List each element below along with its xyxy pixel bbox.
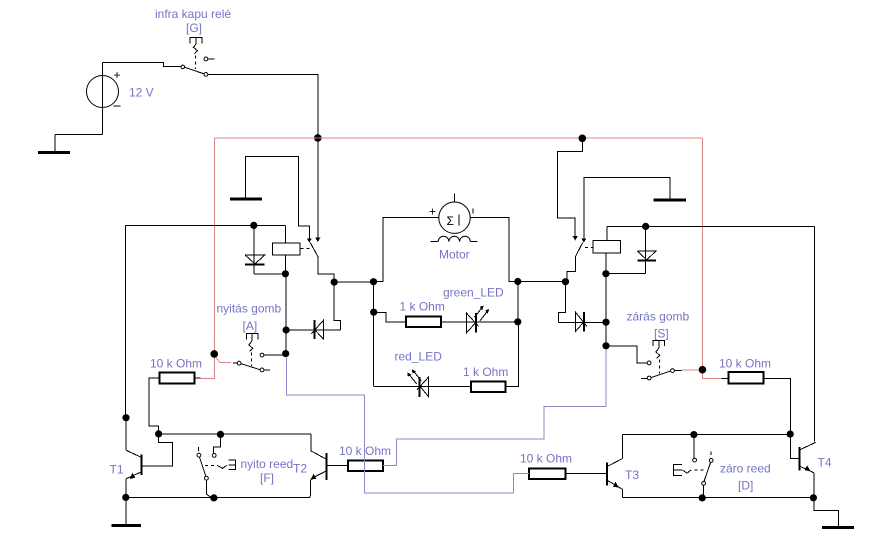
relay switch right fixed contact arrow: [315, 138, 320, 242]
wire green node down to red row: [506, 322, 519, 387]
wire emitter row left: [126, 497, 310, 499]
relay switch arm (right): [567, 243, 583, 282]
ground (right relay): [584, 177, 686, 238]
resistor 10 k Ohm (T2 base): [348, 460, 383, 470]
red_LED: [407, 369, 428, 397]
svg-text:nyitás gomb: nyitás gomb: [217, 302, 282, 316]
relay G switch: [181, 57, 214, 76]
relay switch left fixed contact arrow: [307, 238, 312, 242]
wire arm node down to contact diode: [334, 282, 340, 330]
node right arm out: [562, 278, 569, 285]
wire right 10k right pin down: [764, 379, 791, 434]
wire red top rail: [214, 137, 702, 139]
transistor T1: [126, 418, 141, 498]
transistor T2: [310, 434, 326, 498]
wire T2 base to resistor: [326, 465, 348, 467]
push button nyitás gomb [A]: [233, 333, 286, 371]
svg-text:red_LED: red_LED: [395, 350, 443, 364]
node left button junction: [282, 350, 289, 357]
svg-text:infra kapu relé: infra kapu relé: [155, 7, 231, 21]
node green row tap: [370, 309, 377, 316]
resistor 10 k Ohm (T3 base): [529, 469, 565, 479]
svg-text:1 k Ohm: 1 k Ohm: [463, 365, 508, 379]
svg-text:Σ: Σ: [447, 214, 454, 228]
wire tap to 1k green resistor: [374, 313, 406, 322]
node motor right: [514, 278, 521, 285]
wire emitter row right: [622, 497, 813, 499]
relay coil (left): [273, 225, 300, 273]
transistor T4: [799, 442, 815, 497]
relay G coil: [190, 37, 202, 69]
contact diode (left, points left): [286, 320, 340, 339]
node T1 collector: [122, 414, 129, 421]
svg-text:12 V: 12 V: [129, 86, 154, 100]
resistor 10 k Ohm (left): [160, 372, 195, 383]
resistor 10 k Ohm (right): [728, 372, 763, 383]
wire relay G to node x318: [208, 74, 318, 137]
node right diode row: [602, 319, 609, 326]
wire right outer loop down to T4: [814, 227, 816, 442]
svg-text:Motor: Motor: [439, 248, 470, 262]
node right button junction: [602, 342, 609, 349]
wire blue B (zaras node to T2 resistor): [383, 349, 606, 465]
node top left on red: [314, 134, 322, 142]
node left coil bottom: [282, 270, 289, 277]
wire left 10k right pin: [195, 377, 201, 379]
right relay left fixed contact arrow: [573, 236, 578, 240]
motor M1: [429, 194, 478, 242]
wire red left drop: [213, 138, 215, 354]
svg-text:[G]: [G]: [186, 21, 202, 35]
node T1 emitter: [122, 494, 129, 501]
wire row motor-left to arm node: [334, 281, 373, 283]
resistor R green 1 k Ohm: [406, 317, 441, 328]
T1 base step: [142, 434, 173, 466]
wire row motor-right to right arm node: [518, 281, 566, 283]
node T4 emitter: [810, 494, 817, 501]
mech link dashes (right relay): [585, 246, 593, 248]
T4 base step: [791, 434, 800, 458]
wire left 10k left pin down: [149, 378, 160, 434]
svg-text:[D]: [D]: [738, 479, 753, 493]
node motor left: [370, 278, 377, 285]
svg-text:T4: T4: [818, 456, 832, 470]
svg-text:10 k Ohm: 10 k Ohm: [339, 444, 391, 458]
node top right on red: [579, 135, 587, 143]
reed switch záro reed [D]: [674, 435, 713, 498]
right relay right fixed contact arrow: [581, 238, 586, 242]
ground (bottom right): [814, 498, 854, 528]
node right coil bottom: [602, 270, 609, 277]
node green row right: [514, 318, 521, 325]
node reed D bottom: [699, 494, 706, 501]
wire right supply row y226: [607, 226, 815, 228]
wire motor-right node down: [517, 282, 519, 322]
node reed F bottom: [210, 494, 217, 501]
reed switch nyito reed [F]: [197, 434, 235, 497]
node left diode row: [283, 326, 290, 333]
svg-text:zárás gomb: zárás gomb: [627, 310, 690, 324]
svg-text:T1: T1: [110, 463, 124, 477]
wire left supply row y225: [126, 224, 286, 226]
svg-text:1 k Ohm: 1 k Ohm: [400, 300, 445, 314]
wire T3 base to resistor: [566, 473, 607, 475]
wire motor right: [470, 218, 518, 282]
wire red to left 10k resistor: [201, 354, 215, 379]
svg-text:+: +: [114, 68, 121, 82]
relay switch arm (left): [310, 243, 334, 283]
wire blue A (nyitas node to T3 resistor): [286, 357, 529, 492]
flyback diode (right relay): [606, 227, 656, 274]
mech link dashes (left relay): [300, 247, 310, 249]
ground (top-left): [38, 134, 103, 152]
svg-text:T3: T3: [625, 468, 639, 482]
node T1 base feed: [155, 430, 162, 437]
wire arm node down to right contact diode: [558, 282, 565, 323]
ground (left relay): [230, 156, 309, 238]
flyback diode (left relay): [245, 225, 286, 273]
svg-text:10 k Ohm: 10 k Ohm: [520, 452, 572, 466]
node on red right: [699, 366, 707, 374]
svg-text:10 k Ohm: 10 k Ohm: [719, 357, 771, 371]
svg-text:[F]: [F]: [260, 471, 274, 485]
wire red row left: [374, 385, 471, 387]
wire collector row right: [622, 434, 790, 436]
svg-text:[S]: [S]: [654, 327, 669, 341]
node reed F top: [217, 431, 224, 438]
node left arm out: [331, 279, 338, 286]
voltage source 12V: [87, 63, 121, 135]
svg-text:+: +: [429, 205, 436, 219]
node on red left: [210, 350, 218, 358]
wire resistor to green LED: [441, 321, 518, 323]
wire from top node to right relay switch: [557, 138, 582, 236]
wire source top to relay G switch: [103, 63, 181, 67]
resistor R red 1 k Ohm: [471, 382, 506, 393]
wire coil bottom to diode row to button node: [285, 274, 287, 354]
transistor T3: [607, 435, 622, 498]
svg-text:nyito reed: nyito reed: [241, 457, 294, 471]
node T4 base feed: [787, 431, 794, 438]
wire motor-left node down: [373, 282, 375, 387]
svg-text:záro reed: záro reed: [720, 462, 771, 476]
ground (bottom left): [112, 497, 142, 525]
wire collector row left: [159, 433, 311, 435]
wire red to zaras gomb contact: [681, 369, 698, 371]
wire right 10k left pin: [721, 378, 728, 380]
push button zárás gomb [S]: [606, 340, 681, 380]
svg-text:10 k Ohm: 10 k Ohm: [150, 357, 202, 371]
wire red right drop: [701, 138, 703, 370]
svg-text:green_LED: green_LED: [443, 286, 504, 300]
svg-text:T2: T2: [293, 462, 307, 476]
node right coil top: [642, 223, 649, 230]
node left coil top: [250, 222, 257, 229]
wire motor left: [374, 218, 439, 282]
node reed D top: [690, 431, 697, 438]
svg-text:[A]: [A]: [243, 319, 258, 333]
wire right column to button node: [605, 274, 607, 346]
wire red to right 10k resistor: [702, 370, 721, 379]
relay coil (right): [593, 227, 620, 274]
green_LED: [467, 306, 490, 333]
contact diode (right, points right): [558, 312, 606, 332]
wire red to nyitas gomb contact: [214, 356, 231, 363]
wire left outer loop down to T1: [125, 225, 127, 417]
